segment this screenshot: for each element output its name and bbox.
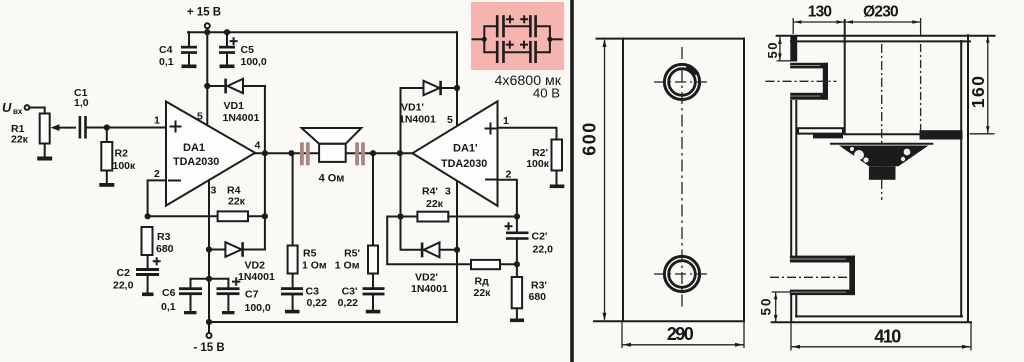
- svg-text:50: 50: [759, 296, 774, 315]
- ground under R1: [37, 144, 52, 161]
- capacitor C7: [217, 278, 271, 314]
- wire Rd to R3' node: [500, 263, 517, 265]
- node junction speaker right: [370, 150, 376, 156]
- wire C6/C7 tap: [191, 278, 229, 280]
- wire +15V rail: [188, 31, 457, 33]
- speaker BA1 4 Ohm: [302, 128, 362, 184]
- node junction C6C7/pin3: [206, 276, 212, 282]
- dimension 600: [580, 39, 607, 321]
- svg-text:+ 15 В: + 15 В: [187, 7, 221, 19]
- capacitor C4: [159, 32, 197, 68]
- svg-text:C3': C3': [342, 286, 358, 298]
- node junction Rd/C2'/R3': [514, 261, 520, 267]
- dimension 160: [968, 35, 995, 134]
- dimension 50 bottom: [759, 292, 791, 322]
- node junction speaker left: [288, 150, 294, 156]
- node junction output DA1: [262, 150, 268, 156]
- capacitor C1: [74, 87, 89, 139]
- hole top circle: [664, 64, 699, 99]
- resistor R3': [512, 264, 547, 308]
- node junction R4' left: [397, 213, 403, 219]
- wire VD1 to output node: [264, 86, 266, 153]
- lower duct boards: [790, 256, 855, 296]
- lower duct axis: [770, 276, 848, 278]
- node junction pin2/R3/R4: [145, 213, 151, 219]
- capacitor C2': [506, 217, 554, 265]
- pin 3' wire to -15 rail: [456, 181, 458, 322]
- svg-text:C3: C3: [306, 286, 320, 298]
- pin 3 wire to -15 rail: [208, 180, 210, 322]
- svg-text:22к: 22к: [228, 196, 246, 208]
- speaker magnet: [869, 166, 896, 180]
- resistor R2: [101, 128, 136, 173]
- svg-text:50: 50: [765, 41, 780, 58]
- svg-text:410: 410: [874, 327, 901, 347]
- svg-text:22,0: 22,0: [113, 280, 134, 292]
- baffle hole line: [845, 133, 920, 135]
- svg-text:C5: C5: [241, 44, 255, 56]
- node junction VD1 anode tap: [204, 83, 210, 89]
- node junction rail/terminal: [204, 29, 210, 35]
- svg-text:130: 130: [808, 4, 832, 21]
- svg-text:C4: C4: [159, 44, 173, 56]
- wire pin1' to R2': [498, 128, 557, 140]
- capacitor C5: [219, 32, 267, 68]
- diode VD2: [209, 242, 275, 283]
- svg-text:R5': R5': [344, 248, 360, 260]
- dimension 130 / D230: [793, 4, 920, 36]
- svg-text:3: 3: [211, 185, 217, 197]
- diode VD2': [401, 217, 458, 296]
- svg-text:DA1: DA1: [183, 142, 205, 154]
- highlighted box 4x6800uF capacitor bank: [471, 2, 564, 70]
- capacitor bank symbol: [473, 15, 562, 63]
- node junction VD1' cathode: [454, 85, 460, 91]
- upper duct boards: [790, 63, 828, 100]
- capacitor C3': [338, 274, 385, 310]
- svg-text:C2': C2': [532, 231, 548, 243]
- svg-text:680: 680: [529, 291, 547, 303]
- baffle board right: [920, 130, 963, 139]
- ground under R3': [510, 308, 524, 322]
- svg-text:вх: вх: [13, 107, 23, 116]
- svg-text:C7: C7: [245, 289, 259, 301]
- resistor R5': [335, 153, 378, 273]
- resistor R4: [218, 185, 248, 222]
- inner partition: [844, 20, 846, 134]
- svg-text:1: 1: [503, 115, 509, 127]
- centerlines top circle: [654, 81, 711, 83]
- resistor R4': [417, 186, 448, 222]
- wire +15 rail corner down to pin 5': [456, 32, 458, 126]
- ground under C3': [366, 295, 381, 313]
- wire C1 to pin1 of DA1: [87, 127, 166, 129]
- node junction R4/output: [262, 213, 268, 219]
- svg-text:C6: C6: [162, 287, 176, 299]
- svg-text:R3': R3': [531, 280, 547, 292]
- svg-text:2: 2: [154, 168, 160, 180]
- hole axis dashed: [920, 44, 922, 133]
- svg-text:1N4001: 1N4001: [399, 114, 436, 126]
- svg-text:VD1': VD1': [401, 102, 424, 114]
- node Uvx input terminal: [2, 100, 29, 116]
- svg-text:0,22: 0,22: [338, 297, 359, 309]
- svg-text:VD1: VD1: [224, 100, 245, 112]
- wire pin 2' down to feedback node: [498, 180, 517, 217]
- label 4x6800uF 40V: [495, 73, 562, 101]
- svg-text:1N4001: 1N4001: [411, 283, 448, 295]
- capacitor C6: [161, 279, 202, 313]
- dimension 410: [791, 322, 971, 351]
- ground under C2: [142, 276, 154, 296]
- svg-text:VD2: VD2: [245, 260, 266, 272]
- box bottom wall: [772, 316, 971, 322]
- svg-text:R4': R4': [422, 186, 438, 198]
- box right wall: [961, 35, 968, 322]
- resistor R1 (potentiometer): [11, 114, 75, 146]
- resistor Rd: [471, 260, 500, 299]
- wire output' vertical: [400, 153, 402, 216]
- svg-text:100к: 100к: [526, 158, 550, 170]
- svg-text:0,1: 0,1: [161, 301, 176, 313]
- svg-text:R3: R3: [157, 231, 171, 243]
- svg-text:VD2': VD2': [415, 272, 438, 284]
- wire +15 down to pin 5: [206, 32, 208, 125]
- svg-text:100,0: 100,0: [245, 302, 271, 314]
- node junction -15 rail: [206, 319, 212, 325]
- box top wall: [777, 36, 995, 42]
- svg-text:0,1: 0,1: [159, 56, 174, 68]
- ground under C4: [182, 54, 197, 68]
- speaker cone section: [839, 146, 929, 167]
- wire output vertical: [264, 153, 266, 249]
- svg-text:Ø230: Ø230: [863, 4, 898, 21]
- svg-text:5: 5: [447, 114, 453, 126]
- ground under C6: [184, 295, 197, 314]
- svg-text:1N4001: 1N4001: [223, 112, 260, 124]
- svg-text:600: 600: [580, 121, 600, 156]
- ground under R2': [550, 171, 565, 189]
- svg-text:Rд: Rд: [475, 276, 490, 288]
- svg-text:DA1': DA1': [453, 143, 478, 155]
- svg-text:100,0: 100,0: [241, 56, 267, 68]
- svg-text:R2: R2: [115, 148, 129, 160]
- svg-text:290: 290: [667, 324, 694, 344]
- svg-text:2: 2: [506, 169, 512, 181]
- ground under C5: [220, 54, 235, 68]
- ground under C7: [222, 295, 235, 314]
- wire output to speaker line: [255, 152, 413, 154]
- resistor R2': [526, 140, 562, 171]
- box left wall segments: [790, 35, 797, 321]
- capacitor C2: [113, 255, 160, 292]
- svg-text:U: U: [2, 100, 12, 115]
- svg-text:TDA2030: TDA2030: [441, 158, 487, 170]
- wire R4 to output node: [248, 215, 265, 217]
- svg-text:4: 4: [255, 140, 261, 152]
- wire output' jog to Rd: [387, 217, 471, 265]
- svg-text:0,22: 0,22: [307, 297, 328, 309]
- node -15V terminal: [193, 322, 224, 354]
- wire R4' to pin2' node: [448, 216, 517, 218]
- connector marks right of speaker: [355, 142, 365, 165]
- svg-text:22к: 22к: [426, 198, 444, 210]
- op-amp DA1: [166, 102, 255, 206]
- baffle board left: [798, 128, 843, 138]
- wire VD1' to output node: [400, 88, 402, 153]
- svg-text:1,0: 1,0: [74, 97, 89, 109]
- svg-text:680: 680: [156, 243, 174, 255]
- svg-text:22,0: 22,0: [533, 244, 554, 256]
- diode VD1: [207, 79, 265, 124]
- node junction C1/R2: [104, 124, 110, 130]
- op-amp DA1': [413, 101, 498, 206]
- svg-text:160: 160: [968, 75, 988, 109]
- node +15V terminal: [187, 7, 221, 33]
- hole bottom circle: [664, 256, 699, 291]
- node junction VD2'/pin3': [454, 247, 460, 253]
- resistor R5: [288, 153, 327, 273]
- connector marks left of speaker: [300, 142, 310, 165]
- resistor R3: [142, 227, 174, 255]
- svg-text:1: 1: [154, 115, 160, 127]
- svg-text:22к: 22к: [474, 287, 492, 299]
- node junction output DA1': [397, 150, 403, 156]
- centerlines bottom circle: [654, 47, 711, 308]
- node junction VD2/pin3: [206, 246, 212, 252]
- capacitor C3: [281, 274, 327, 310]
- panel outline: [594, 39, 744, 322]
- ground under C3: [285, 295, 300, 313]
- svg-text:TDA2030: TDA2030: [173, 156, 219, 168]
- upper duct axis: [766, 80, 837, 82]
- node junction R4'/C2'/pin2': [514, 213, 520, 219]
- svg-text:1 Ом: 1 Ом: [335, 260, 360, 272]
- svg-text:22к: 22к: [11, 134, 29, 146]
- wire pin 2 to R3 node: [148, 180, 166, 216]
- divider line between figures: [570, 0, 574, 362]
- svg-text:3: 3: [445, 186, 451, 198]
- diode VD1': [399, 81, 457, 126]
- svg-text:40 В: 40 В: [533, 86, 560, 101]
- svg-text:4 Ом: 4 Ом: [319, 172, 345, 184]
- svg-text:R5: R5: [303, 248, 317, 260]
- wire to R4': [401, 216, 418, 218]
- speaker axis: [881, 44, 883, 200]
- node junction rail/C5: [224, 29, 230, 35]
- speaker flange: [831, 143, 932, 145]
- svg-text:100к: 100к: [113, 160, 137, 172]
- ground under R2: [99, 171, 114, 187]
- svg-text:1N4001: 1N4001: [238, 271, 275, 283]
- svg-text:C2: C2: [117, 267, 131, 279]
- dimension 50 top: [765, 37, 791, 61]
- dimension 290: [622, 321, 744, 348]
- wire input to R1: [29, 108, 44, 114]
- svg-text:1 Ом: 1 Ом: [302, 260, 327, 272]
- svg-text:- 15 В: - 15 В: [193, 342, 224, 354]
- wire -15V rail: [209, 321, 457, 323]
- wire feedback to R4: [148, 215, 218, 217]
